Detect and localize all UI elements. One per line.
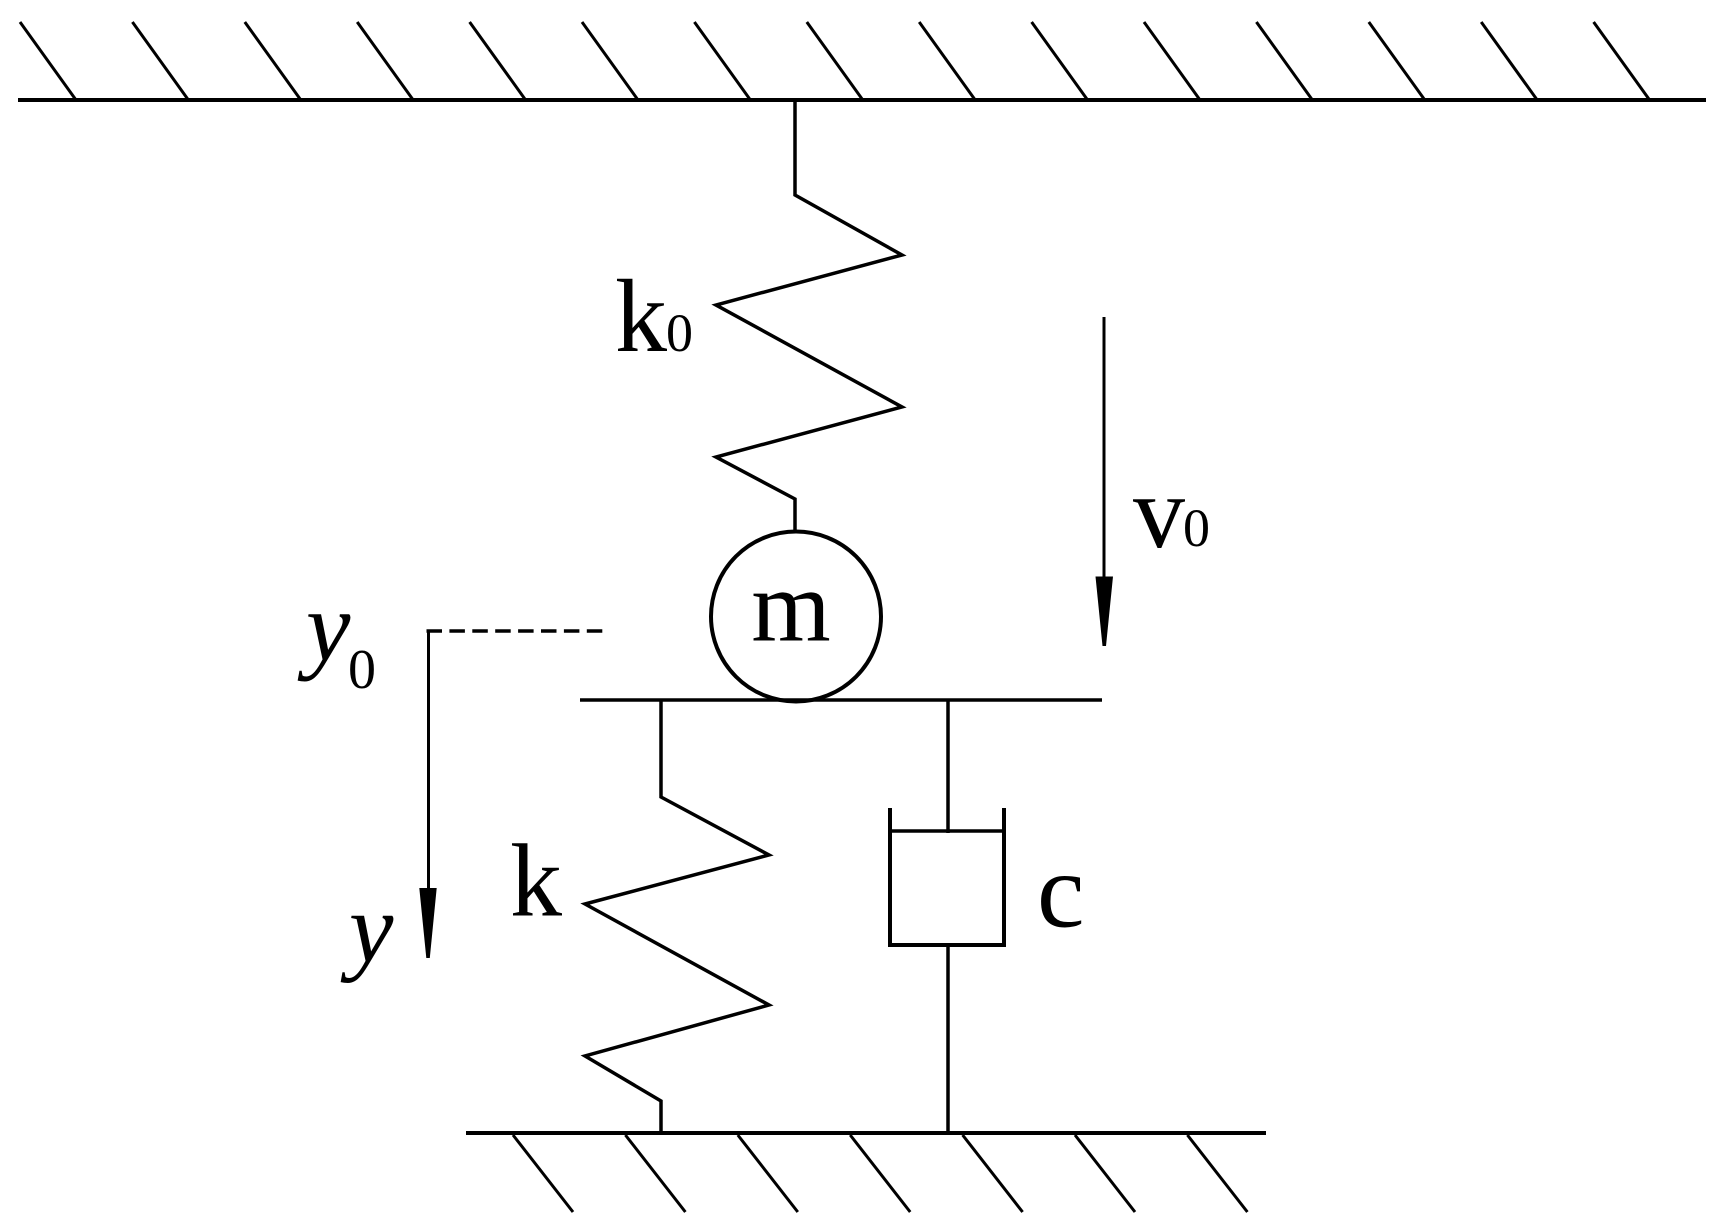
ceiling wall line: [18, 98, 1706, 102]
svg-text:0: 0: [1183, 498, 1210, 558]
svg-text:c: c: [1037, 833, 1085, 951]
velocity arrow v0: [1103, 317, 1106, 580]
svg-text:0: 0: [666, 303, 693, 363]
damper cylinder right wall: [1002, 808, 1006, 945]
spring k0: [716, 100, 902, 532]
spring k: [585, 700, 769, 1133]
damper cylinder left wall: [888, 808, 892, 945]
platform line: [580, 698, 1102, 702]
svg-text:y: y: [340, 873, 394, 984]
datum dashed line y0: [427, 629, 608, 633]
ceiling hatching: [20, 22, 1650, 100]
svg-text:m: m: [751, 551, 830, 664]
svg-text:y: y: [297, 571, 351, 682]
damper cylinder bottom: [888, 943, 1006, 947]
ground line: [466, 1131, 1266, 1135]
svg-text:v: v: [1133, 455, 1185, 570]
displacement arrow y: [427, 631, 430, 892]
svg-text:0: 0: [348, 639, 376, 701]
mass m circle: [711, 532, 881, 702]
ground hatching: [513, 1135, 1247, 1212]
damper piston plate: [890, 829, 1004, 833]
damper rod upper: [946, 700, 950, 833]
svg-text:k: k: [510, 824, 562, 939]
damper rod lower: [946, 945, 950, 1133]
svg-text:k: k: [615, 259, 667, 374]
